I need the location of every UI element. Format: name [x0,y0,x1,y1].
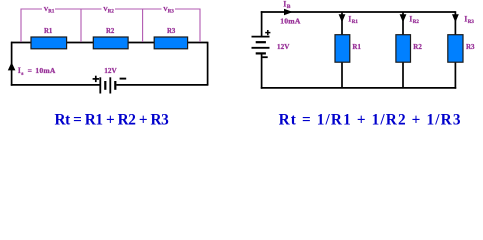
battery plate short [104,81,106,90]
resistor R1 (right circuit) [335,35,350,63]
voltage bracket VR1 [21,9,81,42]
wire: branch R2 vertical [402,12,404,88]
svg-text:10mA: 10mA [280,17,301,26]
wire: left circuit bottom left segment [11,84,100,86]
battery minus sign [120,78,127,80]
wire: right circuit top [261,11,456,13]
svg-text:R3: R3 [468,20,475,25]
label IR2 [409,14,419,24]
battery plate short [256,41,266,43]
battery plate short [256,52,266,54]
current arrow IR1 (down) [339,14,346,22]
label IB [283,0,291,10]
svg-text:B: B [287,4,291,10]
current arrow Is (up) on left wire [8,62,16,70]
current arrow IR3 (down) [452,14,459,22]
resistor R3 [154,37,187,49]
battery B2 (right circuit, 12V) [252,37,270,54]
current arrow IR2 (down) [400,14,407,22]
battery B1 (left circuit, 12V) [100,77,115,93]
svg-text:R2: R2 [413,20,420,25]
svg-text:R1: R1 [352,43,361,51]
resistor R2 (right circuit) [396,35,411,63]
svg-text:10mA: 10mA [35,66,56,75]
svg-text:R2: R2 [108,9,115,14]
battery plate long [99,77,101,93]
svg-text:s: s [21,71,24,77]
battery plate long [252,47,270,49]
battery plate long [109,77,111,93]
svg-text:R1: R1 [352,20,359,25]
battery minus sign [262,56,267,58]
svg-text:=: = [28,66,32,75]
svg-text:R3: R3 [168,9,175,14]
wire: right circuit left top stub [261,11,263,36]
battery plus sign [265,30,270,35]
voltage bracket VR3 [143,9,200,42]
svg-text:R1: R1 [44,28,53,35]
svg-text:12V: 12V [277,43,290,51]
wire: right circuit right side (R3 branch) [454,11,456,89]
svg-text:R2: R2 [413,43,422,51]
svg-text:R3: R3 [167,28,176,35]
wire: branch R1 vertical [341,12,343,88]
svg-text:12V: 12V [104,67,117,75]
current arrow IB (right) on top wire [284,9,293,16]
label VR3 [163,6,174,15]
label VR1 [44,6,55,15]
resistor R1 [31,37,67,49]
svg-text:R2: R2 [106,28,115,35]
battery plus sign [93,76,99,82]
wire: right circuit left bottom stub [261,53,263,88]
resistor R3 (right circuit) [448,35,463,63]
wire: left circuit left side [11,42,13,86]
wire: right circuit bottom [261,87,456,89]
battery plate short [114,81,116,90]
label VR2 [103,6,114,15]
battery plate long [252,36,270,38]
svg-text:R3: R3 [466,43,475,51]
label IR3 [464,14,474,24]
label Is = 10mA [18,66,56,77]
wire: left circuit bottom right segment [116,84,208,86]
voltage bracket VR2 [81,9,143,42]
svg-text:Rt = R1 + R2 + R3: Rt = R1 + R2 + R3 [55,111,170,128]
wire: left circuit right side [207,42,209,85]
svg-text:Rt = 1/R1 + 1/R2 + 1/R3: Rt = 1/R1 + 1/R2 + 1/R3 [279,111,462,128]
label IR1 [348,14,358,24]
svg-text:R1: R1 [48,9,55,14]
wire: left circuit outer loop top [11,42,208,44]
resistor R2 [93,37,128,49]
